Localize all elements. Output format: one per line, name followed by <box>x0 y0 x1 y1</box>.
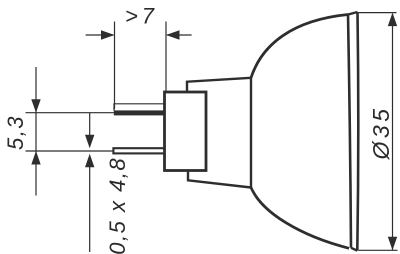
ceramic base rectangle <box>165 92 207 171</box>
dimension line >7 left tail with arrow <box>86 34 114 36</box>
cone start vertical <box>250 78 252 188</box>
extension line diameter top <box>359 12 397 14</box>
reflector bottom curve <box>251 188 349 249</box>
svg-text:0,5 x 4,8: 0,5 x 4,8 <box>105 157 130 254</box>
extension line left of >7 <box>114 22 116 110</box>
svg-text:>7: >7 <box>125 3 158 28</box>
dimension 0,5 upper line with down arrow <box>89 113 91 136</box>
lamp neck bottom edge <box>188 171 251 188</box>
dimension line diameter 35 <box>392 14 394 250</box>
svg-text:Ø35: Ø35 <box>368 106 394 161</box>
rim front edge <box>357 12 358 251</box>
rim top connector <box>348 12 358 15</box>
arrow diameter top pointing up <box>388 13 397 27</box>
top pin upper face outline <box>114 104 165 111</box>
rim bottom connector <box>351 248 357 251</box>
svg-text:5,3: 5,3 <box>3 115 28 150</box>
arrow 5,3 top pointing down <box>31 99 40 113</box>
reflector top curve <box>251 15 348 78</box>
bottom pin outline <box>113 148 165 153</box>
extension line bottom pin axis <box>26 150 114 152</box>
lamp neck top edge <box>187 78 251 92</box>
rim back edge <box>348 15 351 248</box>
extension line diameter bottom <box>359 249 398 251</box>
extension line top pin axis <box>26 112 115 114</box>
dimension line >7 right tail with arrow <box>167 34 192 36</box>
dimension line 5,3 vertical <box>35 67 37 196</box>
arrow 5,3 bottom pointing up <box>31 151 40 165</box>
top pin solid band <box>114 110 166 115</box>
arrow diameter bottom pointing down <box>388 237 397 251</box>
dimension 0,5 lower line with up arrow <box>89 166 91 252</box>
extension line right of >7 <box>165 22 167 92</box>
